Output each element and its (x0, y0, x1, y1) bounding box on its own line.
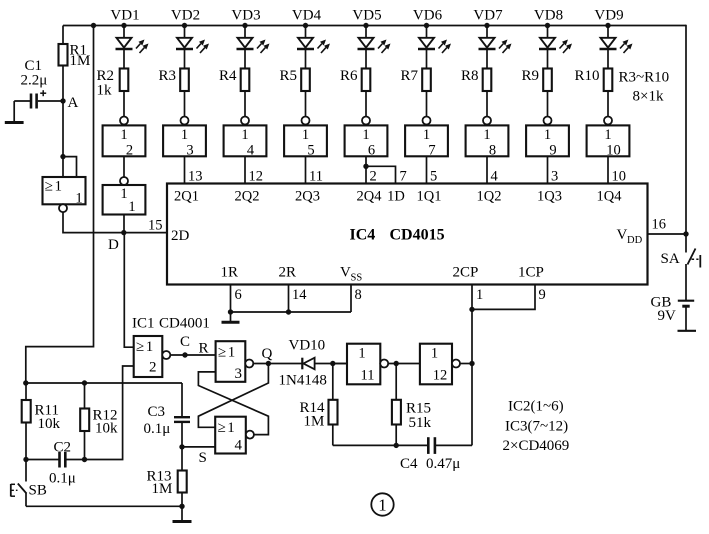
node VD8 junction (545, 23, 550, 28)
svg-text:9V: 9V (658, 308, 677, 324)
wire node A down to gate 1 inputs (62, 101, 64, 177)
node D (121, 230, 126, 235)
svg-text:VD10: VD10 (289, 338, 326, 354)
inverter gate 8 (IC2/IC3) (466, 117, 509, 159)
node VDD rail branch (91, 23, 96, 28)
label R3~R10 8x1k (619, 70, 670, 105)
LED VD2 (176, 26, 209, 54)
label IC4 CD4015 (350, 227, 445, 244)
svg-text:CD4015: CD4015 (390, 227, 445, 244)
node pin14 bus (286, 309, 291, 314)
figure number 1 (circled) (371, 493, 393, 515)
svg-text:6: 6 (235, 287, 242, 303)
IC U-IC4 CD4015 box (167, 184, 648, 285)
node C2 right (82, 457, 87, 462)
svg-text:IC1: IC1 (132, 316, 155, 332)
ground at bottom rail (173, 506, 192, 521)
resistor R7 (422, 49, 431, 117)
inverter gate 11 (IC3) (347, 344, 388, 385)
svg-text:1: 1 (431, 346, 438, 362)
resistor R6 (362, 49, 371, 117)
svg-text:R10: R10 (574, 68, 599, 84)
svg-text:4: 4 (491, 169, 499, 185)
svg-text:≥: ≥ (136, 339, 144, 355)
svg-text:2×CD4069: 2×CD4069 (503, 438, 570, 454)
svg-text:10: 10 (612, 169, 627, 185)
resistor R8 (483, 49, 492, 117)
battery GB (678, 301, 697, 331)
node Q (266, 361, 271, 366)
wire oscillator bottom (333, 444, 429, 446)
svg-text:2.2μ: 2.2μ (21, 73, 48, 89)
svg-text:CD4001: CD4001 (159, 316, 210, 332)
svg-text:IC3(7~12): IC3(7~12) (505, 419, 568, 435)
svg-text:11: 11 (361, 368, 375, 384)
node A (60, 98, 65, 103)
svg-text:IC2(1~6): IC2(1~6) (508, 399, 564, 415)
svg-text:2Q1: 2Q1 (174, 189, 199, 205)
capacitor C1 (polarized) (14, 90, 63, 108)
svg-text:4: 4 (247, 142, 255, 158)
inverter gate 2 (IC2/IC3) (103, 117, 146, 159)
svg-text:A: A (68, 95, 79, 111)
capacitor C2 (26, 452, 85, 468)
svg-text:1: 1 (302, 127, 309, 143)
svg-text:VD8: VD8 (534, 8, 563, 24)
LED VD9 (600, 26, 633, 54)
resistor R10 (604, 49, 613, 117)
svg-text:1: 1 (55, 179, 63, 195)
wire top supply rail (63, 25, 686, 27)
svg-text:51k: 51k (409, 415, 432, 431)
node pin6 bus (228, 309, 233, 314)
svg-text:7: 7 (428, 142, 435, 158)
svg-text:R3: R3 (158, 68, 176, 84)
svg-text:D: D (108, 237, 119, 253)
svg-text:VD1: VD1 (110, 8, 139, 24)
node VD4 junction (303, 23, 308, 28)
svg-text:VD3: VD3 (231, 8, 260, 24)
inverter gate 3 (IC2/IC3) (163, 117, 206, 159)
node gate1 input branch (60, 154, 65, 159)
or-gate 2 (IC1) (134, 336, 171, 377)
inverter gate 4 (IC2/IC3) (224, 117, 267, 159)
node VD6 junction (424, 23, 429, 28)
node R15 bottom (394, 443, 399, 448)
svg-text:10k: 10k (95, 421, 118, 437)
wire gate 3 output to diode (253, 363, 302, 365)
label C4 0.47u (400, 456, 460, 472)
resistor R5 (301, 49, 310, 117)
svg-text:VD6: VD6 (413, 8, 443, 24)
wire pin 6 (1R) (230, 285, 232, 313)
LED VD1 (116, 26, 149, 54)
svg-text:1: 1 (378, 496, 387, 515)
wire gate 2 lower input to C2/R12 node (85, 366, 134, 460)
svg-text:2: 2 (370, 169, 377, 185)
svg-text:Q: Q (262, 346, 273, 362)
svg-text:1N4148: 1N4148 (279, 373, 327, 389)
wire gate 4 output to gate 3 lower input (cross) (198, 372, 268, 435)
svg-text:1: 1 (358, 346, 365, 362)
svg-text:1: 1 (544, 127, 551, 143)
svg-text:1: 1 (146, 339, 154, 355)
svg-text:13: 13 (188, 169, 203, 185)
ground at VSS (222, 312, 240, 322)
resistor R9 (543, 49, 552, 117)
svg-text:1M: 1M (70, 53, 91, 69)
resistor R14 (329, 364, 338, 446)
svg-text:12: 12 (249, 169, 264, 185)
LED VD3 (237, 26, 270, 54)
svg-text:1: 1 (228, 345, 236, 361)
wire gate 6 output to pin 2 (365, 156, 367, 183)
resistor R3 (180, 49, 189, 117)
svg-text:VD7: VD7 (473, 8, 503, 24)
LED VD7 (479, 26, 512, 54)
label R13 1M (147, 469, 173, 498)
svg-text:11: 11 (309, 169, 323, 185)
svg-text:14: 14 (292, 287, 307, 303)
wire gate 8 output to IC4 pin 4 (486, 156, 488, 183)
node pin2 branch (363, 164, 368, 169)
wire S input (182, 446, 215, 448)
svg-text:5: 5 (430, 169, 437, 185)
svg-text:1k: 1k (97, 83, 113, 99)
wire gate 12 output to pin-1 line (460, 363, 472, 365)
wire gate 9 output to IC4 pin 3 (547, 156, 549, 183)
label R11 10k (35, 403, 61, 433)
inverter gate 12 (IC3) (420, 344, 460, 385)
svg-text:10k: 10k (38, 416, 61, 432)
wire gate 7 output to IC4 pin 5 (426, 156, 428, 183)
svg-text:10: 10 (606, 142, 621, 158)
node VD9 junction (605, 23, 610, 28)
resistor R12 (80, 383, 89, 460)
wire pin 14 (2R) (288, 285, 290, 313)
wire R11 rail to C3 (181, 383, 183, 417)
svg-text:IC4: IC4 (350, 227, 376, 244)
node bottom rail R13 (179, 504, 184, 509)
svg-text:SS: SS (351, 273, 363, 284)
node VD5 junction (363, 23, 368, 28)
label C1 2.2u (21, 58, 48, 89)
label R2 1k (97, 68, 115, 99)
node C (182, 352, 187, 357)
wire bottom rail (26, 505, 182, 507)
or-gate 3 (IC1) (216, 341, 254, 382)
svg-text:2CP: 2CP (453, 265, 479, 281)
svg-text:8: 8 (489, 142, 496, 158)
inverter gate 5 (IC2/IC3) (284, 117, 327, 159)
svg-text:1: 1 (476, 287, 483, 303)
svg-text:1Q3: 1Q3 (537, 189, 562, 205)
wire gate 10 output to IC4 pin 10 (607, 156, 609, 183)
resistor R11 (22, 383, 31, 460)
wire gate 2 output to gate 1 buffer (123, 156, 125, 177)
svg-text:9: 9 (549, 142, 556, 158)
or-gate 4 (IC1) (215, 417, 254, 454)
wire gate 11 output to gate 12 (388, 363, 420, 365)
wire pin 16 VDD (648, 233, 687, 235)
label VDD (617, 227, 643, 246)
label C3 0.1u (144, 404, 171, 437)
wire branch to pin 7 (1D) (366, 166, 396, 183)
svg-text:SA: SA (661, 251, 680, 267)
svg-text:1Q4: 1Q4 (597, 189, 623, 205)
or-gate 1 (IC1) (43, 177, 86, 212)
resistor R4 (241, 49, 250, 117)
label R15 51k (406, 401, 432, 432)
svg-text:1D: 1D (387, 189, 405, 205)
svg-text:2Q2: 2Q2 (235, 189, 260, 205)
svg-text:2D: 2D (171, 228, 190, 244)
resistor R13 (178, 447, 187, 506)
node R12 top (82, 380, 87, 385)
inverter gate 7 (IC2/IC3) (405, 117, 448, 159)
wire pin 9 (1CP) (472, 285, 535, 310)
wire gate 2 output to gate 3 R input (170, 354, 216, 356)
label R12 10k (93, 408, 119, 437)
LED VD4 (297, 26, 330, 54)
svg-text:C: C (180, 334, 190, 350)
label R14 1M (300, 400, 326, 430)
svg-text:3: 3 (235, 366, 243, 382)
node gate11 out / R15 top (394, 361, 399, 366)
label IC2 IC3 CD4069 (503, 399, 570, 455)
wire gate 3 output to IC4 pin 13 (184, 156, 186, 183)
svg-text:1Q1: 1Q1 (417, 189, 442, 205)
svg-text:V: V (617, 227, 628, 243)
svg-text:1: 1 (181, 127, 188, 143)
svg-text:2R: 2R (279, 265, 297, 281)
wire pin 1 (2CP) down to oscillator (471, 285, 473, 446)
wire VDD rail to R11/R12 node (26, 26, 94, 384)
node VD3 junction (242, 23, 247, 28)
svg-text:V: V (340, 265, 351, 281)
svg-text:1: 1 (128, 199, 135, 215)
label C2 0.1u (49, 440, 76, 487)
svg-text:16: 16 (652, 217, 667, 233)
svg-text:3: 3 (551, 169, 558, 185)
svg-text:R9: R9 (521, 68, 539, 84)
svg-text:5: 5 (307, 142, 314, 158)
node pin1/pin9 junction (469, 307, 474, 312)
node C2 left (23, 457, 28, 462)
wire Q to gate 4 upper input (cross) (198, 364, 268, 428)
svg-text:0.1μ: 0.1μ (49, 471, 76, 487)
svg-text:S: S (199, 450, 207, 466)
wire gate1 second input branch (63, 157, 77, 177)
node VD7 junction (484, 23, 489, 28)
svg-text:2Q4: 2Q4 (357, 189, 383, 205)
resistor R1 (59, 26, 68, 102)
wire right supply rail down to switch (685, 25, 687, 253)
wire gate1 output to node D (63, 212, 167, 233)
svg-text:1: 1 (483, 127, 490, 143)
svg-text:2: 2 (126, 142, 133, 158)
svg-text:C4: C4 (400, 456, 418, 472)
resistor R15 (392, 364, 401, 446)
capacitor C4 (428, 437, 472, 454)
svg-text:15: 15 (148, 218, 163, 234)
node VD1 junction (121, 23, 126, 28)
LED VD6 (418, 26, 451, 54)
svg-text:1: 1 (120, 127, 127, 143)
svg-text:≥: ≥ (218, 420, 226, 436)
svg-text:6: 6 (368, 142, 375, 158)
node VD2 junction (182, 23, 187, 28)
wire diode node to gate 11 (333, 363, 347, 365)
svg-text:8×1k: 8×1k (633, 89, 664, 105)
svg-text:12: 12 (433, 368, 448, 384)
svg-text:9: 9 (539, 287, 546, 303)
wire R11-R12 top rail (26, 382, 182, 384)
svg-text:R5: R5 (279, 68, 297, 84)
svg-text:1R: 1R (221, 265, 239, 281)
wire gate 5 output to IC4 pin 11 (305, 156, 307, 183)
svg-text:≥: ≥ (45, 179, 53, 195)
inverter gate 1 (IC2) (103, 177, 146, 215)
ground at C1 (5, 101, 24, 123)
pushbutton SB (11, 460, 27, 507)
svg-text:1: 1 (362, 127, 369, 143)
svg-text:R4: R4 (219, 68, 237, 84)
label R1 1M (70, 43, 91, 70)
svg-text:1: 1 (241, 127, 248, 143)
LED VD5 (358, 26, 391, 54)
node S (179, 444, 184, 449)
inverter gate 9 (IC2/IC3) (526, 117, 569, 159)
label IC1 CD4001 (132, 316, 210, 332)
switch SA (686, 249, 700, 301)
label VSS (340, 265, 362, 284)
svg-text:VD9: VD9 (594, 8, 623, 24)
diode VD10 1N4148 (302, 358, 347, 370)
svg-text:SB: SB (29, 483, 47, 499)
wire ground bus (231, 311, 352, 313)
svg-text:R: R (199, 341, 209, 357)
svg-text:C2: C2 (54, 440, 72, 456)
node diode/R14 junction (330, 361, 335, 366)
svg-text:VD5: VD5 (352, 8, 381, 24)
svg-text:1: 1 (227, 420, 235, 436)
wire pin 8 (VSS) (350, 285, 352, 313)
svg-text:0.47μ: 0.47μ (426, 456, 460, 472)
svg-text:7: 7 (400, 169, 407, 185)
svg-text:2: 2 (149, 360, 157, 376)
LED VD8 (539, 26, 572, 54)
svg-text:1M: 1M (304, 414, 325, 430)
wire node D down to gate 2 input (124, 233, 133, 348)
capacitor C3 (174, 417, 190, 447)
svg-text:1M: 1M (152, 481, 173, 497)
svg-text:2Q3: 2Q3 (295, 189, 320, 205)
inverter gate 6 (IC2/IC3) (345, 117, 388, 159)
svg-text:R8: R8 (461, 68, 479, 84)
svg-text:3: 3 (186, 142, 193, 158)
svg-text:R3~R10: R3~R10 (619, 70, 670, 86)
svg-text:DD: DD (627, 235, 643, 246)
node R11 top (23, 380, 28, 385)
svg-text:VD4: VD4 (292, 8, 322, 24)
label GB 9V (651, 295, 677, 325)
svg-text:1CP: 1CP (518, 265, 544, 281)
resistor R2 (120, 49, 129, 117)
node oscillator output junction (469, 361, 474, 366)
wire gate 1 buffer output to node D (123, 215, 125, 233)
node pin16 rail junction (683, 231, 688, 236)
svg-text:1: 1 (423, 127, 430, 143)
inverter gate 10 (IC2/IC3) (587, 117, 630, 159)
svg-text:1: 1 (75, 191, 83, 207)
svg-text:8: 8 (355, 287, 362, 303)
svg-text:R6: R6 (340, 68, 358, 84)
svg-text:1: 1 (604, 127, 611, 143)
svg-text:0.1μ: 0.1μ (144, 421, 171, 437)
wire gate 4 output to IC4 pin 12 (244, 156, 246, 183)
svg-text:1Q2: 1Q2 (477, 189, 502, 205)
svg-text:VD2: VD2 (171, 8, 200, 24)
svg-text:1: 1 (120, 186, 127, 202)
svg-text:≥: ≥ (218, 345, 226, 361)
svg-text:R7: R7 (400, 68, 418, 84)
svg-text:C3: C3 (148, 404, 166, 420)
svg-text:4: 4 (235, 438, 243, 454)
